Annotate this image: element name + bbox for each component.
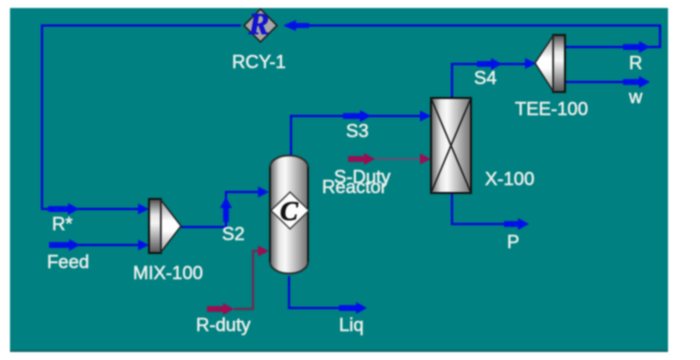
stream w wire (TEE-100 outlet): [565, 81, 637, 83]
stream S3 bold arrow: [343, 110, 371, 122]
stream Liq bold arrow: [339, 302, 367, 314]
stream S2 bold arrow (up): [220, 197, 232, 222]
reactor X-100 vessel: [431, 98, 471, 193]
stream R inlet arrowhead at RCY-1: [283, 20, 309, 31]
energy stream S-Duty bold arrow: [348, 153, 375, 165]
svg-text:Feed: Feed: [47, 251, 89, 272]
tee TEE-100 icon: [535, 35, 565, 92]
svg-text:Liq: Liq: [339, 314, 364, 335]
stream S3 inlet arrowhead at X-100: [420, 111, 431, 122]
stream P wire (X-100 bottom product): [452, 192, 516, 224]
stream R* wire (RCY-1 to MIX-100): [42, 26, 241, 210]
stream Liq wire (column bottoms): [289, 276, 352, 308]
column sub-flowsheet diamond C: [271, 192, 309, 229]
stream R* inlet arrowhead at MIX-100: [138, 204, 149, 215]
svg-text:C: C: [280, 196, 299, 226]
stream Feed bold arrow: [49, 239, 80, 251]
stream S2 wire (MIX-100 to column): [181, 192, 266, 227]
energy stream R-duty inlet arrowhead at column: [258, 246, 269, 257]
recycle operation RCY-1 diamond: [244, 6, 277, 42]
stream S2 inlet arrowhead at column: [258, 187, 269, 198]
svg-text:TEE-100: TEE-100: [515, 98, 588, 119]
svg-text:S3: S3: [346, 120, 369, 141]
svg-text:R*: R*: [52, 213, 73, 234]
stream S4 wire (X-100 to TEE-100): [452, 64, 533, 99]
svg-text:MIX-100: MIX-100: [133, 262, 203, 283]
svg-text:w: w: [628, 86, 643, 107]
stream R* bold arrow: [48, 203, 79, 215]
svg-text:S2: S2: [222, 223, 245, 244]
svg-text:R: R: [248, 6, 270, 41]
energy stream R-duty wire: [234, 251, 266, 309]
stream S4 inlet arrowhead at TEE-100: [525, 58, 536, 69]
svg-text:P: P: [507, 231, 519, 252]
stream P bold arrow: [504, 218, 529, 230]
stream w bold arrow: [623, 76, 650, 88]
column T-100 vessel: [270, 156, 308, 274]
svg-text:RCY-1: RCY-1: [232, 51, 286, 72]
energy stream R-duty bold arrow: [207, 303, 234, 315]
mixer MIX-100 icon: [149, 199, 181, 253]
svg-text:X-100: X-100: [485, 168, 534, 189]
svg-text:S4: S4: [474, 67, 497, 88]
stream Feed wire: [49, 244, 146, 246]
energy stream S-Duty inlet arrowhead at X-100: [420, 154, 431, 165]
stream S3 wire (column to X-100): [291, 116, 428, 158]
svg-text:Reactor: Reactor: [322, 176, 387, 197]
stream R wire (TEE-100 recycle back to RCY-1): [297, 26, 660, 48]
stream R bold arrow: [623, 41, 650, 53]
svg-text:R-duty: R-duty: [196, 314, 251, 335]
svg-text:R: R: [629, 52, 642, 73]
energy stream S-Duty wire: [375, 158, 428, 160]
stream Feed inlet arrowhead at MIX-100: [138, 240, 149, 251]
stream S4 bold arrow: [477, 58, 502, 70]
